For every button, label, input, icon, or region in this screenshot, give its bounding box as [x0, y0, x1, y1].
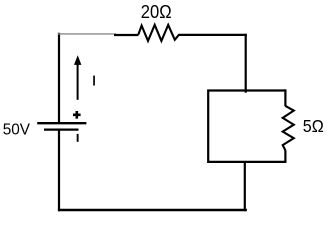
- battery V1 short negative plate: [44, 129, 79, 131]
- wire: bottom horizontal: [58, 209, 247, 211]
- current arrow I head: [74, 55, 81, 65]
- resistor R1 20ohm zigzag: [138, 25, 179, 41]
- resistor R2 5ohm vertical zigzag: [283, 106, 294, 150]
- load box right edge upper segment: [284, 89, 286, 106]
- current arrow I shaft: [77, 65, 79, 100]
- wire: gray horizontal segment from top-left corner toward resistor: [58, 33, 116, 35]
- wire: top horizontal from resistor R1 to top-right corner: [179, 34, 247, 36]
- load box right edge lower segment: [284, 150, 286, 163]
- wire: left vertical lower segment (battery - plate to bottom-left corner): [58, 130, 60, 211]
- wire: top horizontal lead into resistor R1: [114, 34, 139, 36]
- polarity minus tick (vertical bar): [77, 134, 79, 142]
- wire: left vertical upper segment (top-left corner to battery + plate): [58, 33, 60, 123]
- battery V1 long positive plate: [37, 122, 86, 124]
- svg-text:5Ω: 5Ω: [303, 116, 324, 136]
- load box (parallel element enclosure): [208, 91, 286, 162]
- svg-text:50V: 50V: [3, 122, 31, 139]
- wire: right vertical from box bottom to bottom-right corner: [244, 162, 246, 211]
- polarity plus sign: [73, 111, 81, 119]
- svg-text:20Ω: 20Ω: [141, 2, 172, 22]
- label I (current): [93, 76, 95, 86]
- wire: right vertical from top-right corner down to box top: [245, 34, 247, 93]
